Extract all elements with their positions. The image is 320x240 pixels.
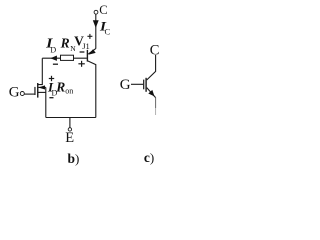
svg-text:J1: J1 [82,41,90,51]
svg-text:D: D [50,45,56,54]
svg-text:G: G [120,77,131,93]
svg-text:G: G [9,85,20,101]
svg-text:C: C [99,3,107,17]
svg-text:C: C [150,42,160,58]
svg-text:E: E [65,130,74,146]
svg-text:c): c) [144,150,154,165]
svg-text:on: on [65,87,73,96]
svg-text:R: R [55,79,65,94]
svg-text:R: R [60,36,70,51]
svg-text:C: C [105,26,111,36]
svg-text:b): b) [68,151,80,166]
